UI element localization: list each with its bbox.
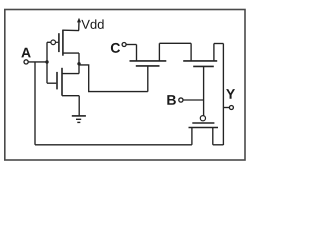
node C (input label) — [111, 43, 120, 53]
transistor M3 (NMOS pass, gate driven by inverter) — [130, 43, 167, 91]
terminal A — [24, 60, 28, 64]
wire terminal B to M4/M5 gate line — [183, 99, 204, 101]
wire from terminal A to gate node — [28, 61, 47, 63]
wire inverter output to M3 gate — [79, 65, 148, 92]
junction dot inverter output node — [77, 62, 80, 65]
wire node A riser to M1/M2 gates — [47, 42, 51, 83]
wire M3 drain to M4 source — [159, 42, 191, 44]
wire M5 drain to Y rail — [213, 144, 224, 146]
wire M4 drain to Y rail — [214, 43, 224, 45]
wire terminal C to M3 source — [126, 45, 136, 61]
wire feedback rail from node A to M5 source — [35, 62, 192, 145]
terminal C — [122, 43, 126, 47]
transistor M5 (PMOS feedback, gate bubble from B) — [189, 116, 219, 145]
terminal Y — [229, 106, 233, 110]
node B (input label) — [167, 95, 176, 105]
node Y (output label) — [226, 89, 235, 99]
transistor M1 (PMOS pull-up, gate bubble) — [51, 30, 79, 64]
wire Y rail to terminal Y — [223, 107, 229, 109]
node A (input label) — [21, 48, 30, 58]
ground — [72, 116, 86, 123]
terminal B — [179, 98, 183, 102]
transistor M4 (NMOS pass, gate B) — [183, 43, 217, 115]
transistor M2 (NMOS pull-down) — [47, 64, 79, 116]
power Vdd (arrow and label) — [77, 18, 104, 31]
wire Y rail — [222, 44, 224, 146]
junction dot on node A — [45, 60, 48, 63]
